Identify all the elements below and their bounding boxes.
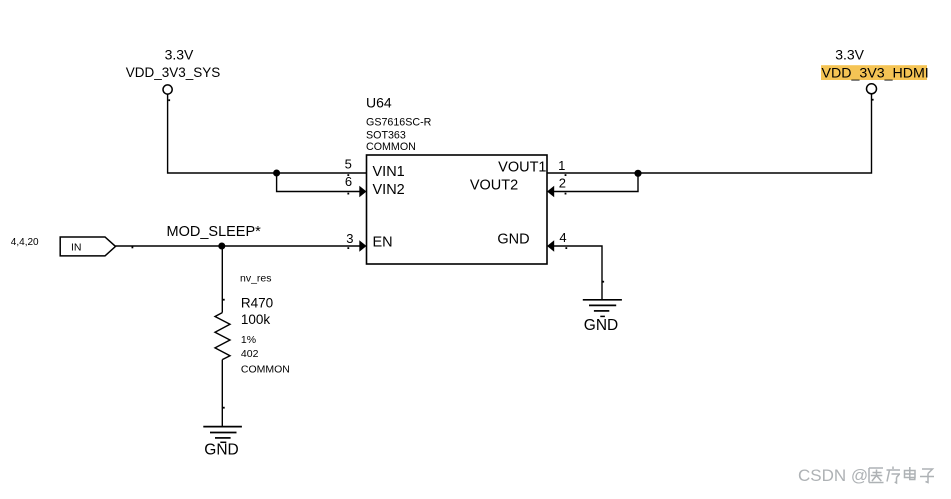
tolerance label 1% [241, 334, 256, 346]
pin number 3 [346, 231, 353, 246]
pin number 2 [559, 175, 566, 190]
pin end marker resistor top [223, 299, 225, 301]
svg-text:3.3V: 3.3V [165, 47, 194, 63]
watermark glyph 医 [869, 468, 884, 483]
pin number 5 [345, 156, 352, 171]
wire junction to pin 6 [277, 173, 361, 192]
value label nv_res [240, 272, 272, 284]
junction at MOD_SLEEP and R470 [218, 243, 225, 250]
svg-text:IN: IN [71, 242, 82, 254]
pin name VOUT2 [470, 178, 518, 194]
svg-text:4: 4 [559, 230, 566, 245]
resistor reference R470 [241, 296, 273, 311]
pin 3 input arrow [359, 240, 366, 251]
ground GND (right) [583, 300, 622, 334]
value label SOT363 [366, 130, 406, 142]
watermark glyph 疗 [887, 467, 901, 484]
port IN (MOD_SLEEP*) [60, 237, 115, 256]
svg-text:VDD_3V3_HDMI: VDD_3V3_HDMI [822, 66, 929, 82]
watermark CSDN [798, 466, 868, 485]
pin name VOUT1 [498, 160, 546, 176]
svg-text:GND: GND [497, 232, 529, 248]
svg-text:COMMON: COMMON [241, 363, 290, 375]
svg-text:U64: U64 [366, 95, 392, 111]
svg-text:VIN1: VIN1 [373, 164, 405, 180]
pin 1 end marker [565, 174, 567, 176]
pin end marker right ground stem [602, 281, 604, 283]
package label 402 [241, 348, 259, 360]
svg-text:GND: GND [584, 317, 618, 334]
wire VDD_3V3_SYS to pin 5 [168, 94, 367, 173]
svg-text:1%: 1% [241, 334, 256, 346]
value label GS7616SC-R [366, 117, 432, 129]
svg-text:SOT363: SOT363 [366, 130, 406, 142]
power symbol VDD_3V3_HDMI [821, 46, 929, 94]
svg-text:MOD_SLEEP*: MOD_SLEEP* [167, 224, 262, 240]
op-amp U64 body [367, 155, 548, 264]
svg-text:100k: 100k [241, 312, 271, 327]
svg-text:nv_res: nv_res [240, 272, 272, 284]
pin 4 end marker [565, 247, 567, 249]
pin number 6 [345, 174, 352, 189]
svg-text:5: 5 [345, 156, 352, 171]
value label COMMON [366, 141, 416, 153]
pin 5 end marker [347, 174, 349, 176]
wire junction to resistor R470 [221, 246, 223, 313]
junction on VOUT wire [634, 170, 641, 177]
resistor value 100k [241, 312, 271, 327]
sheet entry numbers 4,4,20 [11, 237, 39, 248]
pin 2 input arrow [547, 186, 554, 197]
pin end marker on VDD_3V3_HDMI stem [872, 99, 874, 101]
svg-text:CSDN @: CSDN @ [798, 466, 868, 485]
svg-text:4,4,20: 4,4,20 [11, 237, 39, 248]
svg-text:VOUT2: VOUT2 [470, 178, 518, 194]
pin 4 input arrow [547, 240, 554, 251]
wire junction to pin 2 [553, 173, 638, 191]
pin 6 end marker [347, 193, 349, 195]
svg-text:2: 2 [559, 175, 566, 190]
junction on VIN wire [273, 170, 280, 177]
svg-text:GS7616SC-R: GS7616SC-R [366, 117, 432, 129]
ground GND (bottom) [203, 427, 242, 459]
svg-text:R470: R470 [241, 296, 273, 311]
pin 2 end marker [565, 193, 567, 195]
svg-text:VOUT1: VOUT1 [498, 160, 546, 176]
pin 3 end marker [347, 247, 349, 249]
pin end marker on VDD_3V3_SYS stem [168, 99, 170, 101]
svg-text:3.3V: 3.3V [835, 46, 864, 62]
svg-text:VIN2: VIN2 [373, 182, 405, 198]
svg-text:EN: EN [373, 235, 393, 251]
svg-text:3: 3 [346, 231, 353, 246]
pin 6 input arrow [359, 186, 366, 197]
net label MOD_SLEEP* [167, 224, 262, 240]
power symbol VDD_3V3_SYS [126, 47, 221, 95]
pin end marker resistor bottom [223, 407, 225, 409]
svg-text:1: 1 [558, 158, 565, 173]
U64 reference designator [366, 95, 392, 111]
svg-text:402: 402 [241, 348, 259, 360]
resistor R470 [215, 313, 230, 360]
pin name VIN1 [373, 164, 405, 180]
svg-text:6: 6 [345, 174, 352, 189]
svg-text:GND: GND [204, 441, 238, 458]
pin name EN [373, 235, 393, 251]
pin number 4 [559, 230, 566, 245]
wire resistor to ground [221, 360, 223, 427]
pin number 1 [558, 158, 565, 173]
wire port to pin 3 (EN) [116, 245, 361, 247]
wire pin 1 to VDD_3V3_HDMI [547, 94, 872, 173]
pin name VIN2 [373, 182, 405, 198]
watermark glyph 电 [905, 467, 916, 480]
svg-text:COMMON: COMMON [366, 141, 416, 153]
svg-text:VDD_3V3_SYS: VDD_3V3_SYS [126, 65, 221, 80]
pin end marker on port IN wire [132, 247, 134, 249]
label COMMON [241, 363, 290, 375]
pin name GND [497, 232, 529, 248]
wire pin 4 to ground [553, 246, 602, 300]
watermark glyph 子 [920, 469, 934, 483]
